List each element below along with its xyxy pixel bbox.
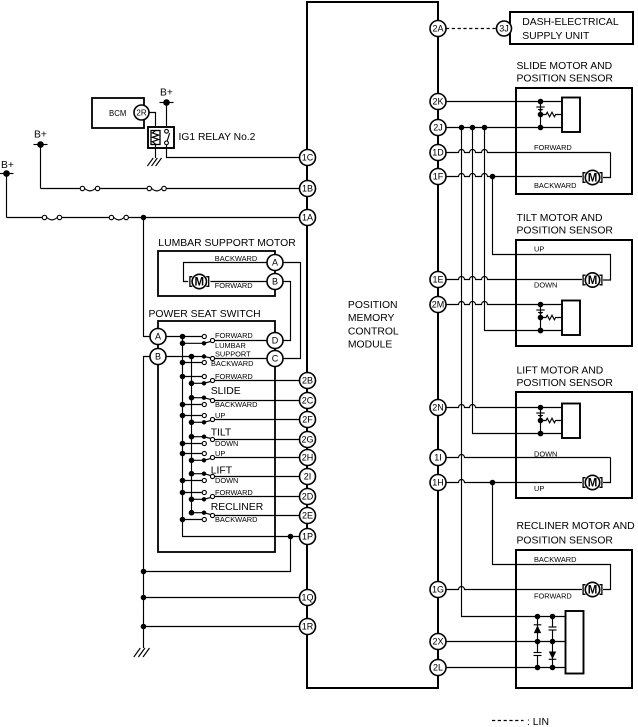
wire relay contact to pin 1C [167, 145, 300, 158]
svg-text:IG1 RELAY No.2: IG1 RELAY No.2 [179, 132, 256, 143]
pin 2I [300, 469, 316, 485]
svg-text:LIFT MOTOR AND: LIFT MOTOR AND [517, 366, 604, 377]
ground under relay [147, 158, 161, 166]
svg-text:2F: 2F [302, 415, 313, 425]
pin 2G [300, 432, 316, 448]
svg-text:M: M [588, 585, 598, 597]
B+ terminal above relay [160, 88, 174, 106]
pin 3J [497, 21, 512, 36]
module title [348, 300, 399, 351]
svg-text:2I: 2I [304, 472, 312, 482]
pin 2H [300, 450, 316, 466]
svg-text:FORWARD: FORWARD [534, 143, 572, 152]
tilt position sensor [536, 301, 580, 336]
svg-text:1B: 1B [302, 184, 313, 194]
svg-text:A: A [155, 332, 161, 342]
slide motor M [583, 170, 602, 184]
svg-text:1C: 1C [302, 153, 314, 163]
svg-text:DOWN: DOWN [215, 476, 238, 485]
svg-text:MODULE: MODULE [348, 340, 393, 351]
svg-text:1P: 1P [302, 532, 313, 542]
svg-text:UP: UP [534, 484, 544, 493]
pin 2D [300, 489, 316, 505]
svg-text:1I: 1I [434, 453, 442, 463]
recliner motor M [583, 582, 602, 596]
svg-text:B: B [272, 277, 278, 287]
pin C switch [267, 351, 283, 367]
pin 1F [430, 169, 446, 185]
vertical wire from 2J to tilt sensor [485, 128, 563, 331]
pin B switch [150, 349, 166, 365]
relay coil [151, 131, 160, 145]
connector circles on 1A wire [42, 215, 128, 219]
wire 2J to slide sensor [446, 127, 562, 129]
BCM box [92, 98, 144, 128]
wire 2M to tilt sensor [446, 302, 562, 305]
wire 1D to slide motor forward [446, 150, 611, 153]
wire B+ down to 1B row [40, 145, 42, 189]
svg-text:M: M [588, 173, 598, 185]
ground bottom left [134, 648, 150, 657]
wire B+ to relay contact [166, 103, 168, 130]
svg-text:UP: UP [534, 245, 544, 254]
svg-text:2H: 2H [302, 453, 314, 463]
pin 2J [430, 120, 446, 136]
pin 1Q [300, 590, 316, 606]
pin 1A [300, 210, 316, 226]
svg-text:2D: 2D [302, 492, 314, 502]
svg-text:LUMBAR SUPPORT MOTOR: LUMBAR SUPPORT MOTOR [158, 238, 296, 249]
relay IG1 No.2 box [148, 127, 174, 148]
pin D switch [267, 333, 283, 349]
wire B+ down to 1A row [6, 174, 8, 218]
svg-text:1Q: 1Q [301, 593, 313, 603]
svg-text:: LIN: : LIN [527, 717, 549, 727]
lift motor and position sensor box [516, 392, 632, 498]
recliner sensor left branch (diode up + capacitor) [534, 614, 542, 671]
svg-text:B+: B+ [34, 130, 47, 141]
wire to pin 1A with inline connectors [7, 218, 300, 220]
wire to pin 1B with inline connectors [41, 189, 300, 191]
svg-text:3J: 3J [499, 24, 509, 34]
svg-text:TILT MOTOR AND: TILT MOTOR AND [517, 213, 603, 224]
svg-text:2M: 2M [432, 300, 445, 310]
vertical wire from 2J to recliner sensor [462, 128, 566, 617]
pin 2B [300, 373, 316, 389]
pin 2R [134, 105, 149, 120]
svg-text:SUPPLY UNIT: SUPPLY UNIT [522, 31, 590, 42]
svg-text:1D: 1D [432, 148, 444, 158]
pin A switch [150, 329, 166, 345]
wire to pin 1R [144, 626, 300, 628]
B+ terminal (far left) [0, 160, 14, 177]
switch lumbar forward contact to D [180, 338, 267, 346]
svg-text:1A: 1A [302, 213, 313, 223]
pin 2M [430, 297, 446, 313]
recliner motor and position sensor box [516, 550, 632, 688]
pin B lumbar [267, 274, 283, 290]
lumbar motor M [190, 274, 209, 288]
wire 2R to relay coil [149, 113, 156, 131]
svg-text:2R: 2R [136, 109, 146, 118]
pin 2E [300, 508, 316, 524]
switch group SLIDE [180, 372, 300, 409]
svg-text:DOWN: DOWN [215, 439, 238, 448]
svg-text:D: D [272, 336, 279, 346]
svg-text:1R: 1R [302, 622, 314, 632]
svg-text:2C: 2C [302, 396, 314, 406]
pin 2K [430, 94, 446, 110]
switch group RECLINER [180, 488, 300, 524]
slide motor and position sensor box [516, 88, 632, 194]
svg-text:M: M [195, 277, 205, 289]
svg-text:RECLINER: RECLINER [211, 502, 264, 513]
svg-text:M: M [588, 478, 598, 490]
wire lumbar A to switch C [283, 263, 301, 359]
wire 1P junction down-left [144, 537, 291, 572]
tilt motor M [583, 273, 602, 287]
wire to pin 1Q [144, 597, 300, 599]
svg-text:1F: 1F [433, 172, 444, 182]
svg-text:POSITION: POSITION [348, 300, 398, 311]
svg-text:B: B [155, 352, 161, 362]
svg-text:M: M [588, 275, 598, 287]
lift position sensor [536, 404, 580, 439]
wire 1I to lift motor down [446, 455, 611, 458]
wire switch A up to 1A row [144, 218, 151, 337]
vertical wire 1H to recliner motor BACKWARD [493, 483, 611, 590]
svg-text:2B: 2B [302, 376, 313, 386]
pin 2L [430, 660, 446, 676]
recliner motor title [517, 521, 635, 547]
svg-text:A: A [272, 258, 278, 268]
pin 1B [300, 181, 316, 197]
svg-text:DOWN: DOWN [534, 280, 557, 289]
svg-text:FORWARD: FORWARD [215, 281, 253, 290]
recliner sensor right branch (capacitor + diode down) [549, 614, 557, 671]
svg-text:2K: 2K [432, 97, 443, 107]
pin 1R [300, 619, 316, 635]
wire switch A common [166, 336, 202, 338]
pin 2X [430, 634, 446, 650]
wire 1G to recliner motor forward [446, 587, 582, 590]
pin A lumbar [267, 255, 283, 271]
vertical wire 1F to tilt motor UP [493, 177, 611, 281]
svg-text:2G: 2G [301, 435, 313, 445]
wire switch B common [166, 356, 204, 358]
svg-text:1G: 1G [432, 585, 444, 595]
pin 1C [300, 150, 316, 166]
svg-text:SLIDE: SLIDE [211, 386, 241, 397]
pin 2C [300, 393, 316, 409]
svg-text:B+: B+ [160, 88, 173, 99]
svg-text:BACKWARD: BACKWARD [215, 400, 257, 409]
svg-text:POSITION SENSOR: POSITION SENSOR [517, 378, 614, 389]
wire 2K to slide sensor [446, 101, 562, 103]
svg-text:LUMBAR: LUMBAR [215, 341, 246, 350]
wire 2X to recliner sensor [446, 641, 566, 643]
wire lumbar backward (A to motor) [184, 263, 268, 282]
svg-text:B+: B+ [1, 160, 14, 171]
B+ terminal (middle left) [34, 130, 48, 148]
bus from switch A [183, 337, 300, 537]
dash-electrical supply unit box [510, 12, 633, 44]
svg-text:TILT: TILT [211, 428, 232, 439]
svg-text:LIFT: LIFT [211, 466, 233, 477]
pin 2F [300, 412, 316, 428]
lumbar support motor box [158, 251, 275, 296]
tilt motor title [517, 213, 614, 237]
wire lumbar B to switch D [283, 282, 291, 341]
svg-text:BCM: BCM [109, 109, 126, 118]
svg-text:2E: 2E [302, 511, 313, 521]
svg-text:C: C [272, 354, 279, 364]
svg-text:POSITION SENSOR: POSITION SENSOR [517, 73, 614, 84]
svg-text:MEMORY: MEMORY [348, 313, 395, 324]
wire 2A to 3J (LIN, dashed) [446, 28, 497, 30]
lift motor M [583, 475, 602, 489]
switch lumbar backward contact to C [180, 354, 267, 365]
pin 1P [300, 529, 316, 545]
svg-text:BACKWARD: BACKWARD [211, 359, 253, 368]
labels lumbar switch [211, 331, 253, 368]
power seat switch box [158, 321, 275, 552]
pin 2N [430, 400, 446, 416]
svg-text:FORWARD: FORWARD [534, 591, 572, 600]
junction 1P wire [288, 534, 294, 540]
svg-text:POWER SEAT SWITCH: POWER SEAT SWITCH [149, 309, 261, 320]
svg-text:UP: UP [215, 449, 225, 458]
svg-text:2L: 2L [433, 663, 443, 673]
svg-text:SLIDE MOTOR AND: SLIDE MOTOR AND [517, 61, 613, 72]
junction on 1A row [141, 215, 147, 221]
svg-text:1H: 1H [432, 478, 444, 488]
pin 1H [430, 475, 446, 491]
recliner sensor unit [566, 611, 584, 674]
svg-text:FORWARD: FORWARD [215, 488, 253, 497]
tilt motor and position sensor box [516, 240, 632, 346]
wire switch B down to grounds [144, 357, 151, 649]
svg-text:RECLINER MOTOR AND: RECLINER MOTOR AND [517, 521, 635, 532]
pin 2A [430, 21, 446, 37]
relay coil ground wire [155, 145, 157, 159]
wire 2N to lift sensor [446, 405, 562, 408]
pin 1G [430, 582, 446, 598]
svg-text:SUPPORT: SUPPORT [215, 350, 251, 359]
svg-text:BACKWARD: BACKWARD [215, 515, 257, 524]
wire 1H to lift motor up [446, 480, 582, 483]
pin 1D [430, 145, 446, 161]
svg-text:CONTROL: CONTROL [348, 326, 399, 337]
svg-text:2A: 2A [432, 24, 443, 34]
switch group TILT [180, 411, 300, 448]
legend LIN [492, 717, 549, 727]
svg-text:2N: 2N [432, 403, 444, 413]
pin 1E [430, 272, 446, 288]
svg-text:POSITION SENSOR: POSITION SENSOR [517, 536, 614, 547]
svg-text:BACKWARD: BACKWARD [215, 254, 257, 263]
svg-text:FORWARD: FORWARD [215, 372, 253, 381]
svg-text:POSITION SENSOR: POSITION SENSOR [517, 226, 614, 237]
svg-text:FORWARD: FORWARD [215, 331, 253, 340]
position memory control module U1 box [307, 2, 438, 688]
wire 2L to recliner sensor [446, 667, 566, 669]
svg-text:DASH-ELECTRICAL: DASH-ELECTRICAL [522, 17, 619, 28]
svg-text:2J: 2J [433, 123, 443, 133]
pin 1I [430, 450, 446, 466]
slide position sensor [536, 98, 580, 133]
bus from switch B [191, 357, 193, 513]
svg-text:BACKWARD: BACKWARD [534, 181, 576, 190]
wire lumbar forward (motor to B) [210, 281, 267, 283]
switch group LIFT [180, 449, 300, 485]
svg-text:BACKWARD: BACKWARD [534, 555, 576, 564]
relay contact [165, 129, 170, 144]
lift motor title [517, 366, 614, 390]
connector circles on 1B wire [80, 186, 166, 190]
slide motor title [517, 61, 614, 85]
wire 1F to slide motor backward [446, 174, 582, 177]
svg-text:1E: 1E [432, 275, 443, 285]
vertical wire from 2J to lift sensor [473, 128, 563, 434]
wire 1E to tilt motor down [446, 277, 582, 280]
svg-text:UP: UP [215, 411, 225, 420]
svg-text:2X: 2X [432, 637, 443, 647]
